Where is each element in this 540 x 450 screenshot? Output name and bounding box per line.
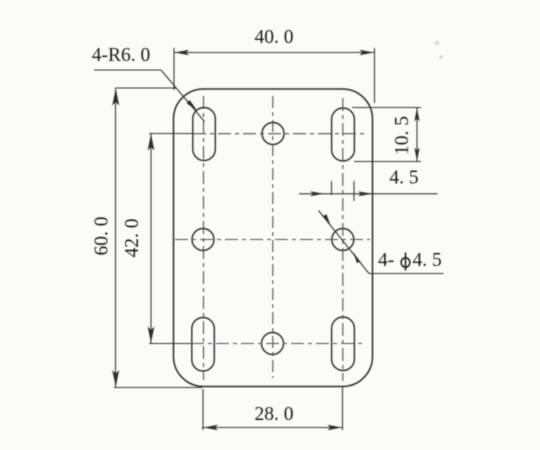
svg-text:4-: 4-: [378, 250, 394, 271]
hole middle-left: [192, 229, 214, 251]
plate outline (rounded rectangle, R6.0 corners): [174, 89, 373, 387]
svg-text:10. 5: 10. 5: [392, 116, 413, 155]
label 4-R6.0 underline: [94, 69, 161, 71]
dim 4.5 tick slot right edge: [353, 181, 355, 201]
dim 42.0 arrow top: [148, 134, 155, 151]
label 4-phi4.5 phi symbol circle: [401, 258, 410, 267]
label 4-R6.0 leader arrowhead: [187, 100, 198, 111]
dim 10.5 extension bottom: [354, 161, 421, 163]
dim 60.0 arrow bottom: [112, 370, 119, 387]
hole middle-right (phi 4.5): [332, 229, 354, 251]
dim 4.5 tick slot left edge: [331, 181, 333, 195]
dim 40.0 extension line right: [374, 48, 376, 103]
dim 10.5 extension top: [352, 107, 421, 109]
leader 4-phi4.5 arrowhead lower: [353, 252, 363, 265]
dim 40.0 extension line left: [173, 48, 175, 90]
leader 4-phi4.5 diagonal: [319, 211, 370, 274]
dim 60.0 extension bottom: [114, 387, 202, 389]
dim 60.0 extension top: [116, 87, 177, 89]
slot top-right: [332, 108, 355, 161]
centerline vertical middle column: [272, 96, 274, 378]
leader 4-phi4.5 arrowhead upper: [321, 213, 331, 226]
dim 10.5 arrow bottom: [414, 148, 419, 162]
dim 40.0 arrow left: [175, 50, 190, 55]
dim 28.0 extension left: [202, 389, 204, 430]
dim 40.0 arrow right: [360, 50, 375, 55]
dim 28.0 arrow left: [204, 425, 219, 430]
dim 28.0 dimension line: [202, 427, 343, 429]
scan speck: [435, 41, 439, 45]
slot bottom-right: [332, 317, 355, 371]
svg-text:42. 0: 42. 0: [122, 219, 143, 258]
dim 42.0 extension bottom: [149, 343, 191, 345]
dim 28.0 extension right: [342, 386, 344, 430]
hole top-center: [262, 123, 284, 145]
dim 28.0 arrow right: [328, 425, 343, 430]
dim 10.5 dimension line: [416, 108, 418, 162]
dim 40.0 dimension line: [174, 52, 375, 54]
label 4-R6.0 leader diagonal: [161, 70, 205, 122]
dim 42.0 arrow bottom: [148, 327, 155, 344]
leader 4-phi4.5 shoulder: [369, 273, 444, 275]
svg-text:4. 5: 4. 5: [389, 168, 418, 189]
dim 60.0 arrow top: [112, 89, 119, 106]
hole bottom-center: [262, 333, 284, 355]
dim 42.0 dimension line: [150, 134, 152, 344]
svg-text:60. 0: 60. 0: [92, 217, 113, 256]
svg-text:4. 5: 4. 5: [413, 250, 442, 271]
svg-text:28. 0: 28. 0: [255, 404, 294, 425]
dim 4.5 arrow left: [310, 191, 324, 196]
dim 10.5 arrow top: [414, 108, 419, 122]
label 4-phi4.5 phi symbol vertical stroke: [405, 253, 407, 271]
dim 4.5 arrow right: [358, 191, 373, 196]
dim 60.0 dimension line: [115, 88, 117, 388]
centerline vertical right column: [342, 98, 344, 381]
centerline horizontal middle row: [175, 239, 370, 241]
centerline vertical left column: [203, 96, 205, 380]
slot bottom-left: [192, 318, 215, 372]
scan speck: [440, 56, 443, 59]
svg-text:4-R6. 0: 4-R6. 0: [92, 45, 151, 66]
svg-text:40. 0: 40. 0: [255, 27, 294, 48]
centerline horizontal top row: [193, 133, 364, 135]
centerline horizontal bottom row: [191, 343, 364, 345]
slot top-left: [193, 108, 216, 161]
dim 42.0 extension top: [149, 133, 193, 135]
dim 4.5 leader line: [299, 193, 438, 195]
